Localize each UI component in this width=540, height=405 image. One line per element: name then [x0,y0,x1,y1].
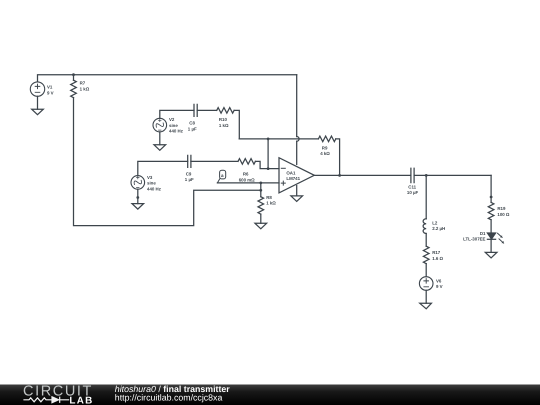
label R19 100 Ohm [497,206,510,217]
label C8 1 uF [188,121,197,132]
label OA1 LM741 [286,170,300,181]
node flag a [217,170,225,183]
junction dot above R19 [490,196,493,199]
wire corner down to R19 [490,175,492,202]
capacitor C11 [411,168,414,182]
svg-text:R6: R6 [243,172,249,177]
svg-text:V6: V6 [436,278,442,283]
label V1 9 V [47,85,54,96]
svg-text:1 kΩ: 1 kΩ [219,123,229,128]
svg-text:V3: V3 [147,175,153,180]
wire tie plus row to R8 row [260,183,262,190]
op-amp plus sign [281,181,285,185]
svg-text:R7: R7 [80,81,86,86]
svg-text:1 kΩ: 1 kΩ [266,201,276,206]
wire op-amp output to C11 [314,174,411,176]
label R10 1 kOhm [219,117,229,128]
junction dot R8 top [259,189,262,192]
wire L2 to R17 [425,234,427,247]
svg-text:a: a [221,173,224,178]
wire hop arc [297,137,299,142]
wire down to L2 [425,175,427,218]
label D1 LTL-307EE [463,231,486,242]
svg-text:http://circuitlab.com/ccjc8xa: http://circuitlab.com/ccjc8xa [115,393,223,403]
svg-text:1.6 Ω: 1.6 Ω [432,256,443,261]
svg-text:sine: sine [147,181,156,186]
junction dot on output [338,174,341,177]
wire op-amp V- pin to ground [296,186,298,196]
label R6 600 mOhm [239,172,255,183]
svg-text:R10: R10 [219,117,228,122]
resistor R7 [71,80,77,97]
svg-text:4 kΩ: 4 kΩ [320,151,330,156]
svg-text:D1: D1 [480,231,486,236]
wire R17 to V6 [425,264,427,277]
svg-text:1 µF: 1 µF [185,177,194,182]
svg-text:LM741: LM741 [286,176,300,181]
wire plus input row [217,182,279,184]
label C11 10 uF [407,185,419,196]
label a [221,173,224,178]
wire C8 to R10 [197,109,217,111]
resistor R8 [258,197,264,214]
label R7 1 kOhm [80,81,90,92]
svg-text:C9: C9 [186,171,192,176]
label L2 2.2 uH [432,220,445,231]
svg-text:100 Ω: 100 Ω [497,212,510,217]
inductor L2 [423,219,426,234]
LED D1 [487,233,503,243]
wire top rail from V1 to op-amp V+ drop [38,75,297,82]
wire C9 to R6 [191,160,238,162]
wire R8 to ground [260,214,262,223]
svg-text:LAB: LAB [69,395,93,405]
svg-text:C8: C8 [189,121,195,126]
svg-text:R8: R8 [266,195,272,200]
resistor R19 [488,202,494,219]
svg-text:10 µF: 10 µF [407,190,419,195]
wire minus rail from R10 corner to R9 [239,138,318,140]
svg-text:9 V: 9 V [436,284,443,289]
capacitor C8 [194,104,197,116]
wire R10 right then down to minus node [234,110,239,138]
svg-text:R9: R9 [322,145,328,150]
ground below V6 [420,303,432,309]
svg-text:V2: V2 [169,117,175,122]
wire V2 to ground [159,132,161,145]
wire V3 to ground [137,189,139,203]
label R8 1 kOhm [266,195,276,206]
label V3 sine 440 Hz [147,175,162,192]
wire vertical tie from minus rail down to minus input [267,139,269,169]
svg-text:C11: C11 [408,185,416,190]
wire R6 jog down to op-amp minus input [255,161,279,168]
wire D1 to ground [490,239,492,252]
ground below V2 [154,145,166,151]
svg-text:LTL-307EE: LTL-307EE [463,237,485,242]
svg-text:R17: R17 [432,250,441,255]
svg-text:440 Hz: 440 Hz [169,129,184,134]
resistor R9 [318,136,335,142]
junction dot on V3 ground stem [136,196,139,199]
svg-text:1 µF: 1 µF [188,126,197,131]
wire op-amp V+ pin drop with hop over minus rail [296,75,298,165]
svg-text:L2: L2 [432,220,438,225]
label V2 sine 440 Hz [169,117,184,134]
sine source V2 [153,118,167,132]
junction dot plus row [259,182,262,185]
svg-text:1 kΩ: 1 kΩ [80,87,90,92]
svg-text:OA1: OA1 [286,170,296,175]
capacitor C9 [188,155,191,167]
svg-text:V1: V1 [47,85,53,90]
resistor R17 [423,246,429,263]
label R17 1.6 Ohm [432,250,443,261]
svg-text:600 mΩ: 600 mΩ [239,177,255,182]
svg-text:440 Hz: 440 Hz [147,187,162,192]
wire V3 up and right to C9 [138,161,188,175]
node junction top rail at R7 [72,73,75,76]
ground below op-amp [291,196,303,202]
wire V2 up and right to C8 [160,110,194,118]
wire V1 to ground [37,96,39,109]
op-amp minus sign [281,167,285,169]
logo resistor-diode squiggle [23,397,69,403]
svg-text:R19: R19 [497,206,506,211]
wire R8 stub [260,190,262,196]
svg-text:sine: sine [169,123,178,128]
junction dot minus input row [267,167,270,170]
resistor R10 [217,108,234,114]
resistor R6 [238,159,255,165]
voltage source V6 [419,277,433,291]
ground below V1 [32,109,44,115]
sine source V3 [131,176,145,190]
junction dot at L2 branch [425,174,428,177]
wire R9 right end down to output [336,139,340,176]
junction dot on minus rail [267,138,270,141]
label V6 9 V [436,278,443,289]
wire R7 down, across bottom, up to plus-node row [74,98,261,226]
wire C11 to LED branch corner [414,174,491,176]
svg-text:2.2 µH: 2.2 µH [432,226,445,231]
op-amp OA1 triangle [279,158,314,193]
voltage source V1 [30,82,44,96]
ground below D1 [485,252,497,258]
svg-text:9 V: 9 V [47,90,54,95]
ground below V3 [132,204,144,210]
wire rail to R7 [73,75,75,81]
wire R19 to D1 [490,220,492,233]
label R9 4 kOhm [320,145,330,156]
label C9 1 uF [185,171,194,182]
wire V6 to ground [425,290,427,303]
ground below R8 [255,223,267,229]
